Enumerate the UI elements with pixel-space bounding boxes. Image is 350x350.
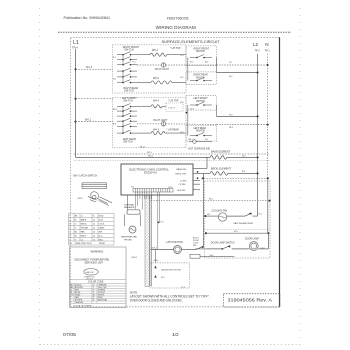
wire door lamp feed xyxy=(206,232,269,234)
wire EOC to thermal breaker xyxy=(127,195,129,210)
svg-text:WARNING: WARNING xyxy=(91,249,104,253)
svg-text:ES100-V0: ES100-V0 xyxy=(144,171,157,175)
revision box xyxy=(224,294,281,307)
svg-text:W-L1: W-L1 xyxy=(86,65,93,69)
svg-text:SW.: SW. xyxy=(193,245,197,247)
svg-text:LEFT REAR: LEFT REAR xyxy=(194,127,207,130)
resistor left front element WH-4 xyxy=(137,105,151,107)
svg-text:PILOT LIGHT: PILOT LIGHT xyxy=(154,120,169,122)
wire neutral dotted to lower box xyxy=(201,177,267,179)
tie verticals right boxes (left side) xyxy=(187,58,189,81)
svg-text:DLB: DLB xyxy=(99,219,104,221)
svg-text:COOLING FAN: COOLING FAN xyxy=(212,209,228,212)
svg-text:DOOR LAMP SWITCH: DOOR LAMP SWITCH xyxy=(211,241,235,244)
junction L1/LF feed xyxy=(74,98,76,100)
svg-text:* L/R REAR: * L/R REAR xyxy=(167,129,179,132)
lower dashed box (fan and lamp circuits) xyxy=(205,181,271,258)
wire DLB vertical xyxy=(203,178,205,247)
dual element sub box xyxy=(166,103,183,112)
svg-text:LATCH MOTOR: LATCH MOTOR xyxy=(166,241,183,244)
wire RR to L2 xyxy=(217,72,258,74)
svg-text:W-L1: W-L1 xyxy=(148,156,154,158)
surface section bottom separator xyxy=(74,153,270,155)
svg-text:WH-3: WH-3 xyxy=(153,129,160,131)
svg-text:**: ** xyxy=(70,302,72,304)
svg-text:FAN THERMOSTAT: FAN THERMOSTAT xyxy=(234,222,254,225)
svg-text:LAMP: LAMP xyxy=(99,226,105,229)
warning color code box xyxy=(70,247,126,308)
svg-text:NATURAL: NATURAL xyxy=(98,299,108,302)
svg-text:DOOR LAMP: DOOR LAMP xyxy=(245,237,259,240)
svg-text:OVEN DOOR CLOSED AND UNLOCKED: OVEN DOOR CLOSED AND UNLOCKED xyxy=(130,299,182,303)
lamp hot surface indicator xyxy=(189,141,193,143)
wire broil feed vertical xyxy=(203,173,205,178)
svg-text:B-4: B-4 xyxy=(181,132,184,134)
surface switch box 1 (right front + right rear) xyxy=(113,45,186,93)
svg-text:07/05: 07/05 xyxy=(63,332,77,337)
svg-text:TRACER: TRACER xyxy=(75,301,84,304)
svg-text:BAKE: BAKE xyxy=(81,218,87,221)
junction L1/RF feed xyxy=(74,68,76,70)
svg-text:SHOCK: SHOCK xyxy=(86,272,94,274)
resistor broil element xyxy=(210,172,228,176)
svg-text:BAKE ELEMENT: BAKE ELEMENT xyxy=(211,151,231,154)
svg-text:LEFT FRONT: LEFT FRONT xyxy=(194,98,209,100)
svg-text:LOCK: LOCK xyxy=(99,223,105,225)
svg-text:NEUT: NEUT xyxy=(81,235,87,237)
svg-text:RIGHT FRONT: RIGHT FRONT xyxy=(194,48,210,50)
wire N bus dotted xyxy=(267,54,269,179)
wire L1 to box2 upper xyxy=(76,98,113,100)
wire L1 bus xyxy=(75,49,77,158)
svg-text:SWITCH: SWITCH xyxy=(196,51,205,53)
wire LF to L2 xyxy=(217,115,258,117)
svg-text:C LP-2: C LP-2 xyxy=(168,108,176,110)
hot surface switch right front xyxy=(186,46,217,66)
wire latch motor line xyxy=(151,249,174,251)
svg-text:SWITCH: SWITCH xyxy=(196,131,205,133)
resistor right front element WH-1 xyxy=(137,54,150,56)
svg-text:R-1: R-1 xyxy=(205,139,208,141)
wire dotted to RF pilot xyxy=(137,64,161,66)
svg-text:WH-1: WH-1 xyxy=(152,50,159,52)
lamp door lamp xyxy=(249,242,258,251)
svg-text:FUNCTION: FUNCTION xyxy=(81,243,92,245)
hot surface switch left front xyxy=(186,96,217,111)
hot surface switch left rear xyxy=(186,125,217,141)
wire LR to N dotted xyxy=(217,124,268,126)
svg-text:N: N xyxy=(265,42,268,47)
svg-text:WH-2: WH-2 xyxy=(153,78,160,80)
svg-text:* - COLOR OF STRIPE: * - COLOR OF STRIPE xyxy=(70,305,92,307)
junction L1/LR feed xyxy=(74,121,76,123)
motor latch M1 xyxy=(174,246,182,254)
svg-text:BLK-1: BLK-1 xyxy=(132,257,139,259)
harness pin drops xyxy=(135,192,159,250)
wire bake feed vertical xyxy=(206,157,208,168)
svg-text:SW: SW xyxy=(99,231,102,233)
svg-text:R-1: R-1 xyxy=(113,79,116,81)
fold mark right xyxy=(299,8,301,342)
outer border right dark edge xyxy=(279,37,281,306)
wire L2 bus xyxy=(257,54,259,216)
svg-text:10: 10 xyxy=(172,332,179,337)
svg-text:GND: GND xyxy=(99,215,104,217)
svg-text:BREAKER: BREAKER xyxy=(124,206,135,209)
wire L1 feed line xyxy=(76,156,211,158)
header separator line xyxy=(58,31,291,33)
svg-text:R-1: R-1 xyxy=(181,55,184,57)
svg-text:B-1: B-1 xyxy=(113,57,116,59)
svg-text:BLK-1: BLK-1 xyxy=(152,247,159,249)
outer diagram dashed border xyxy=(71,37,280,306)
svg-text:SW-TCH: SW-TCH xyxy=(123,100,133,103)
lamp LF pilot light xyxy=(161,122,165,126)
svg-text:BR-2: BR-2 xyxy=(113,109,117,111)
fold mark left xyxy=(39,8,41,345)
motor cooling fan xyxy=(218,213,226,221)
svg-text:P-2: P-2 xyxy=(133,62,136,64)
hot surface switch right rear xyxy=(186,72,217,85)
svg-text:BROIL REL: BROIL REL xyxy=(176,173,188,175)
switch right rear (infinite switch contacts) xyxy=(117,70,123,72)
svg-text:LL REL: LL REL xyxy=(180,180,188,182)
resistor bake element xyxy=(210,156,227,160)
switch fan thermostat xyxy=(227,215,245,217)
surface switch box 2 (left front + left rear) xyxy=(113,97,186,147)
switch door lamp xyxy=(206,248,222,250)
fold mark bottom xyxy=(40,344,303,346)
EOC relay output stubs xyxy=(193,169,207,190)
svg-text:SW-TCH: SW-TCH xyxy=(124,48,134,51)
svg-text:R-3: R-3 xyxy=(181,102,184,104)
resistor right rear element WH-2 xyxy=(137,81,151,83)
svg-text:SW-2: SW-2 xyxy=(78,198,84,200)
svg-text:W-L1: W-L1 xyxy=(85,117,92,121)
svg-text:DISCONNECT POWER BEFORE: DISCONNECT POWER BEFORE xyxy=(75,260,110,262)
wire dotted to LF pilot xyxy=(137,123,161,125)
wire L1 to box1 xyxy=(76,68,113,70)
svg-text:TERM: TERM xyxy=(99,243,105,245)
color code table xyxy=(70,279,126,281)
svg-text:SW-TCH: SW-TCH xyxy=(124,89,134,92)
svg-text:DLB REL: DLB REL xyxy=(177,190,187,192)
oven section top dashed xyxy=(74,160,270,162)
wire W-1 dotted mid xyxy=(151,200,270,202)
svg-text:BROIL ELEMENT: BROIL ELEMENT xyxy=(211,167,231,170)
switch auto door lock xyxy=(182,249,197,251)
svg-text:TP-2: TP-2 xyxy=(255,49,261,52)
svg-text:BROIL: BROIL xyxy=(81,223,88,225)
svg-text:WH-4: WH-4 xyxy=(153,100,160,102)
temperature probe receptacle xyxy=(129,226,136,233)
svg-text:SW-TCH: SW-TCH xyxy=(123,140,133,143)
svg-text:SURFACE-ELEMENTS-CIRCUIT: SURFACE-ELEMENTS-CIRCUIT xyxy=(162,39,221,44)
svg-text:PROBE: PROBE xyxy=(81,227,89,229)
inline connector xyxy=(190,254,200,258)
svg-text:319045056 Rev. A: 319045056 Rev. A xyxy=(228,298,273,303)
svg-text:TP-1: TP-1 xyxy=(265,49,271,52)
op-amp? no — electronic oven control box U1 xyxy=(121,164,193,195)
connector strip P1 xyxy=(133,189,173,193)
wire RF to N dotted xyxy=(217,64,268,66)
svg-text:LATCH MOTOR SW: LATCH MOTOR SW xyxy=(161,269,182,272)
door latch mechanism drawing xyxy=(82,183,112,206)
svg-text:RIGHT REAR: RIGHT REAR xyxy=(194,74,208,77)
lamp RF pilot light xyxy=(161,63,165,67)
svg-text:SP-1C: SP-1C xyxy=(140,146,146,148)
latch switch dotted box xyxy=(150,263,189,288)
svg-text:W: W xyxy=(75,235,77,237)
svg-text:Publication No. 5995442841: Publication No. 5995442841 xyxy=(64,15,111,20)
wire harness bundle xyxy=(145,196,149,287)
wire N drop to lamp xyxy=(267,233,269,249)
svg-text:B-2: B-2 xyxy=(181,77,184,79)
stub left of lamp box xyxy=(195,248,206,250)
svg-text:SERVICING UNIT: SERVICING UNIT xyxy=(85,262,104,264)
wire L1 to box2 lower xyxy=(76,121,113,123)
svg-text:PILOT LIGHT: PILOT LIGHT xyxy=(155,69,170,71)
wire fan feed xyxy=(205,215,219,217)
svg-text:TEMPERATURE: TEMPERATURE xyxy=(121,236,138,239)
warning oval xyxy=(84,269,98,276)
svg-text:N.C.: N.C. xyxy=(161,277,166,279)
svg-text:THERMAL: THERMAL xyxy=(124,204,135,207)
svg-text:L1: L1 xyxy=(73,40,79,46)
svg-text:B-3: B-3 xyxy=(113,123,116,125)
svg-text:* L/R TOP: * L/R TOP xyxy=(168,100,179,102)
svg-text:FEB27S6DCB: FEB27S6DCB xyxy=(167,15,189,20)
svg-text:SWITCH: SWITCH xyxy=(196,101,205,103)
resistor left rear element WH-3 xyxy=(137,132,151,134)
svg-text:BR-1: BR-1 xyxy=(189,139,193,141)
svg-text:* L/R TOP: * L/R TOP xyxy=(170,48,181,50)
svg-text:TP-4: TP-4 xyxy=(72,45,78,49)
connector pin table xyxy=(68,213,114,245)
svg-text:WIRING DIAGRAM: WIRING DIAGRAM xyxy=(156,25,196,30)
svg-text:HOT SURFACE IND.: HOT SURFACE IND. xyxy=(188,147,211,150)
svg-text:FAN: FAN xyxy=(81,230,86,233)
thermal breaker component xyxy=(127,210,140,214)
svg-text:BAKE REL: BAKE REL xyxy=(177,168,188,171)
switch left rear (infinite switch contacts) xyxy=(117,120,123,122)
divider dotted xyxy=(205,229,271,231)
svg-text:SW-* LATCH SWITCH: SW-* LATCH SWITCH xyxy=(73,174,97,177)
svg-text:CF REL: CF REL xyxy=(179,184,187,186)
svg-text:N.C.: N.C. xyxy=(99,235,104,237)
svg-text:PROBE: PROBE xyxy=(124,239,132,241)
svg-text:L2: L2 xyxy=(253,42,259,47)
